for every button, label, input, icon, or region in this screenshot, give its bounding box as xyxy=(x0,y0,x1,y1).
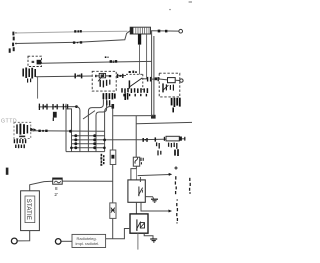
wire net row y106 xyxy=(39,106,77,108)
F2 label xyxy=(141,158,143,165)
inline connector K1 xyxy=(75,73,81,78)
wire netF to arrow xyxy=(141,202,169,211)
svg-text:8: 8 xyxy=(55,186,58,191)
relay coil RL1 xyxy=(168,78,176,83)
wire netA xyxy=(41,61,151,63)
D5 label rows xyxy=(14,139,25,148)
grid wire g1 xyxy=(72,135,105,137)
wire coil bottom down xyxy=(139,45,141,75)
diode box V1 xyxy=(110,203,116,219)
wire netG xyxy=(62,180,112,182)
drop wire w1 xyxy=(77,107,80,152)
relay blade inside junction box xyxy=(83,111,95,119)
D4 interior contacts xyxy=(163,83,174,92)
label blob right xyxy=(125,93,127,100)
stray dash top right xyxy=(189,1,192,2)
STATIE box xyxy=(21,191,40,231)
inline connector K2 xyxy=(116,75,126,77)
svg-text:2': 2' xyxy=(54,192,58,197)
grid wire g2 (extends right to resistor row) xyxy=(72,139,186,140)
inline connector K8 xyxy=(143,138,147,142)
label B=B xyxy=(105,56,117,62)
wire coil to terminal xyxy=(151,30,180,32)
wire S1 to K3 xyxy=(143,78,147,80)
netF vertical text xyxy=(176,199,179,223)
ground G1 xyxy=(145,197,153,199)
wire net2 xyxy=(15,31,130,44)
wire STATIE top xyxy=(30,181,53,191)
dashed box D1 xyxy=(28,56,42,66)
svg-text:GTTD: GTTD xyxy=(1,118,17,124)
label under K6 xyxy=(53,112,57,118)
branch to v136 xyxy=(113,115,154,117)
wire RL1 to terminal xyxy=(175,79,179,81)
inline connector K4 xyxy=(155,77,158,80)
terminal T4 xyxy=(11,238,17,244)
terminal T2 xyxy=(180,79,183,82)
heater coil E1 xyxy=(130,27,150,34)
wire into RL1 xyxy=(159,78,167,81)
label row under switch xyxy=(122,88,147,93)
junction box inner edge xyxy=(66,109,72,152)
grid wire g4 xyxy=(72,147,105,149)
netC dots xyxy=(38,130,47,132)
wire net1 (light) xyxy=(15,31,128,33)
relay box U2 (bold) xyxy=(130,214,148,233)
inline connector K6 xyxy=(53,104,57,110)
wire K3 to K4 xyxy=(151,78,155,80)
R1 side label (rotated) xyxy=(100,154,104,166)
bus bottom corner xyxy=(151,115,156,119)
right edge text col xyxy=(189,178,192,194)
v112 top tick xyxy=(112,104,115,109)
wire LBL1 lead xyxy=(61,240,72,242)
U2 contact xyxy=(136,219,140,231)
terminal T1 xyxy=(179,29,183,33)
ground G2 xyxy=(144,233,153,238)
wire netD (long right) xyxy=(136,122,192,123)
junction box left edge xyxy=(65,104,67,152)
text box LBL1 xyxy=(72,234,106,247)
D5 arrows xyxy=(30,127,36,131)
label under K9 xyxy=(157,142,161,155)
fuse box F2 xyxy=(133,157,139,166)
svg-text:Radioteleg.: Radioteleg. xyxy=(77,236,97,241)
dashed relay box D2 xyxy=(92,71,116,91)
U1 contact xyxy=(138,187,142,197)
netE vertical text xyxy=(174,176,177,194)
resistor R2 xyxy=(166,136,179,141)
U2 hatch element xyxy=(140,223,144,228)
dashed box D5 xyxy=(14,122,31,138)
junction dot J2 xyxy=(69,130,72,133)
wire netC xyxy=(31,130,105,133)
drop wire w4 xyxy=(105,106,113,151)
terminal T3 xyxy=(55,239,61,245)
relay box U1 xyxy=(128,180,145,202)
wire U2 left exit xyxy=(106,229,130,239)
jog below F2 xyxy=(131,166,137,180)
D2 interior relay marks xyxy=(95,73,111,87)
D2 bottom label xyxy=(103,93,114,99)
resistor R1 xyxy=(110,150,116,165)
drop wire w3 xyxy=(96,99,107,151)
inline connector K3 xyxy=(148,77,151,82)
grid wire g3 xyxy=(72,143,105,145)
vertical main v112 xyxy=(112,104,114,239)
U1 inlet stub xyxy=(139,177,141,182)
dashed relay box D4 xyxy=(159,73,180,97)
switch S1 xyxy=(130,78,142,87)
coil drop bar xyxy=(138,34,141,45)
D1 component blob xyxy=(37,60,42,65)
stray dot top xyxy=(169,9,170,10)
inline dots xyxy=(158,30,168,33)
junction box bottom xyxy=(66,151,105,153)
tick K9 xyxy=(154,137,156,141)
wire netB xyxy=(36,75,92,78)
drop wire w2 xyxy=(88,99,103,151)
connector X1 pin bars xyxy=(10,32,14,53)
wire U2 bottom stem xyxy=(137,233,139,249)
wire netE with arrow xyxy=(138,175,170,176)
bus vertical b1 xyxy=(151,31,153,116)
wire U1 to U2 xyxy=(135,202,137,214)
D5 interior xyxy=(17,124,27,135)
bus vertical b2 xyxy=(153,36,155,118)
mark i xyxy=(6,168,9,175)
connector dots on net2 xyxy=(73,41,82,44)
label above v112 xyxy=(107,100,110,106)
svg-text:impl. radiotel.: impl. radiotel. xyxy=(76,241,100,246)
label plus xyxy=(174,166,177,169)
branch down from netB xyxy=(37,77,39,99)
inline connector K5 xyxy=(39,104,47,110)
wire vertical v146 xyxy=(146,34,148,79)
svg-text:STATIE: STATIE xyxy=(25,199,31,220)
connector bundle X2 xyxy=(23,68,35,83)
connector dots on net1 xyxy=(74,30,82,33)
label under R2 xyxy=(169,143,177,149)
wire STATIE bottom xyxy=(17,231,30,241)
D4 bottom label xyxy=(172,98,180,107)
grid junction dots xyxy=(70,134,106,149)
inline connector K7 xyxy=(63,104,67,110)
junction dot J1 xyxy=(75,105,78,108)
dashed switch box D3 xyxy=(126,74,143,90)
fuse F1 xyxy=(53,178,63,184)
